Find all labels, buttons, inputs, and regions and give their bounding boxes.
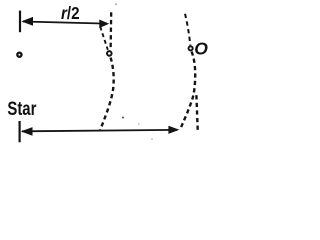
svg-text:Star: Star (7, 99, 36, 120)
svg-text:r/2: r/2 (61, 3, 80, 23)
svg-text:O: O (194, 38, 208, 58)
